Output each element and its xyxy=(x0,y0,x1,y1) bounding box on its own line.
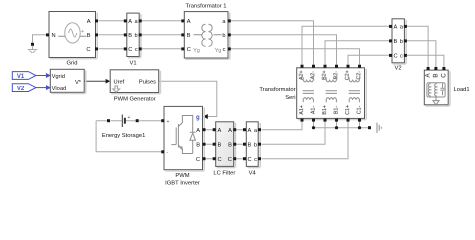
svg-text:c: c xyxy=(223,47,226,53)
svg-text:Vload: Vload xyxy=(52,86,67,92)
svg-text:C: C xyxy=(218,157,222,163)
svg-text:C: C xyxy=(187,47,191,53)
svg-text:A: A xyxy=(196,128,200,134)
svg-text:A: A xyxy=(248,128,252,134)
svg-text:A: A xyxy=(394,25,398,31)
svg-text:B: B xyxy=(432,73,439,77)
svg-text:A: A xyxy=(128,19,132,25)
svg-text:C1-: C1- xyxy=(357,105,363,114)
svg-text:b: b xyxy=(135,33,138,39)
svg-text:C: C xyxy=(440,73,447,78)
svg-text:C2+: C2+ xyxy=(345,70,351,80)
svg-text:b: b xyxy=(222,33,225,39)
svg-text:+: + xyxy=(81,29,84,35)
svg-text:A: A xyxy=(187,19,191,25)
svg-text:B: B xyxy=(228,143,232,149)
svg-text:Seri: Seri xyxy=(285,95,295,101)
svg-text:Yg: Yg xyxy=(193,48,200,54)
svg-text:g: g xyxy=(196,115,200,121)
svg-text:Uref: Uref xyxy=(114,79,125,85)
svg-text:B: B xyxy=(87,33,91,39)
svg-text:B2+: B2+ xyxy=(322,70,328,80)
svg-text:c: c xyxy=(135,47,138,53)
svg-text:Yg: Yg xyxy=(215,48,222,54)
svg-text:A: A xyxy=(218,128,222,134)
svg-text:IGBT Inverter: IGBT Inverter xyxy=(165,181,200,187)
svg-text:B1-: B1- xyxy=(334,106,340,114)
svg-text:PWM: PWM xyxy=(175,173,189,179)
svg-text:C: C xyxy=(196,157,200,163)
svg-text:Vgrid: Vgrid xyxy=(52,74,65,80)
svg-text:Pulses: Pulses xyxy=(139,79,156,85)
svg-text:C: C xyxy=(394,54,398,60)
svg-text:Grid: Grid xyxy=(67,61,78,67)
svg-text:PWM Generator: PWM Generator xyxy=(114,97,156,103)
svg-text:Load1: Load1 xyxy=(454,87,470,93)
svg-text:A: A xyxy=(87,19,91,25)
svg-text:+: + xyxy=(128,115,131,121)
svg-text:Transformator 1: Transformator 1 xyxy=(185,4,226,10)
svg-text:C: C xyxy=(248,157,252,163)
svg-text:c: c xyxy=(254,157,257,163)
svg-text:V2: V2 xyxy=(394,65,401,71)
svg-text:A1-: A1- xyxy=(311,106,317,114)
svg-text:V2: V2 xyxy=(17,86,25,92)
svg-text:B1+: B1+ xyxy=(322,105,328,115)
svg-text:b: b xyxy=(400,39,403,45)
svg-text:N: N xyxy=(52,33,56,39)
svg-text:A1+: A1+ xyxy=(299,105,305,115)
svg-text:B: B xyxy=(248,143,252,149)
svg-text:B: B xyxy=(196,143,200,149)
svg-text:C: C xyxy=(128,47,132,53)
svg-text:Transformator: Transformator xyxy=(259,87,295,93)
svg-text:A2+: A2+ xyxy=(299,70,305,80)
svg-text:B: B xyxy=(218,143,222,149)
svg-text:C: C xyxy=(86,47,90,53)
svg-text:B: B xyxy=(128,33,132,39)
svg-text:C: C xyxy=(228,157,232,163)
svg-text:V1: V1 xyxy=(17,74,25,80)
svg-text:B: B xyxy=(187,33,191,39)
svg-text:V*: V* xyxy=(75,80,82,86)
svg-text:+: + xyxy=(167,119,170,125)
svg-text:c: c xyxy=(400,54,403,60)
svg-text:A: A xyxy=(228,128,232,134)
svg-text:V4: V4 xyxy=(249,170,257,176)
svg-text:V1: V1 xyxy=(129,61,136,67)
svg-text:LC Filter: LC Filter xyxy=(213,170,235,176)
svg-text:b: b xyxy=(254,143,257,149)
svg-text:B: B xyxy=(394,39,398,45)
svg-text:C1+: C1+ xyxy=(345,105,351,115)
svg-text:Energy Storage1: Energy Storage1 xyxy=(102,133,146,139)
